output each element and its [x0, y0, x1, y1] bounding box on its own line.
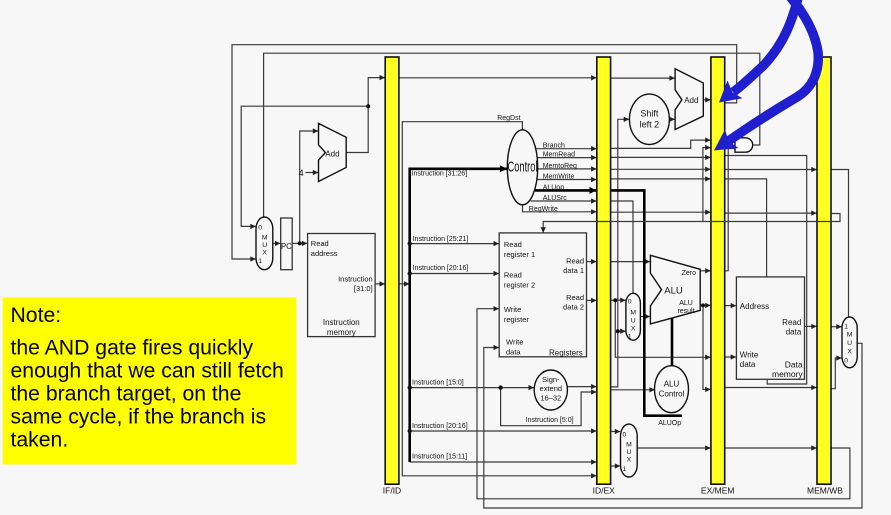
svg-text:taken.: taken.	[11, 429, 69, 452]
svg-text:M: M	[626, 442, 632, 449]
svg-text:PC: PC	[281, 242, 292, 251]
svg-text:Address: Address	[740, 302, 769, 311]
svg-text:data 1: data 1	[563, 266, 584, 275]
svg-text:ALUSrc: ALUSrc	[543, 195, 568, 202]
svg-text:MemWrite: MemWrite	[543, 173, 575, 180]
svg-text:Write: Write	[504, 305, 521, 314]
svg-text:left 2: left 2	[640, 120, 660, 130]
svg-text:Read: Read	[504, 270, 522, 279]
svg-text:MEM/WB: MEM/WB	[807, 486, 843, 496]
svg-text:ALU: ALU	[664, 379, 680, 388]
svg-text:EX/MEM: EX/MEM	[701, 486, 735, 496]
svg-text:1: 1	[628, 334, 632, 341]
svg-text:0: 0	[623, 432, 627, 439]
svg-text:Control: Control	[659, 389, 685, 398]
svg-text:Zero: Zero	[682, 270, 697, 277]
svg-text:Instruction [20:16]: Instruction [20:16]	[413, 265, 469, 272]
svg-text:U: U	[631, 318, 636, 325]
svg-text:1: 1	[623, 466, 627, 473]
svg-text:ALU: ALU	[664, 286, 683, 297]
svg-text:Read: Read	[311, 239, 329, 248]
svg-text:16–32: 16–32	[540, 393, 561, 402]
svg-text:Instruction [5:0]: Instruction [5:0]	[526, 417, 574, 424]
svg-text:Instruction [15:0]: Instruction [15:0]	[412, 379, 464, 386]
svg-text:memory: memory	[772, 369, 803, 379]
svg-text:Branch: Branch	[543, 143, 565, 150]
svg-text:Add: Add	[325, 149, 339, 158]
svg-text:memory: memory	[327, 328, 356, 337]
svg-text:ID/EX: ID/EX	[593, 486, 616, 496]
svg-text:same cycle, if the branch is: same cycle, if the branch is	[11, 406, 267, 429]
svg-text:Write: Write	[506, 338, 523, 347]
svg-text:Read: Read	[782, 318, 801, 327]
svg-text:0: 0	[258, 225, 262, 232]
svg-text:the AND gate fires quickly: the AND gate fires quickly	[11, 337, 254, 360]
svg-text:0: 0	[628, 299, 632, 306]
svg-text:Registers: Registers	[549, 348, 583, 357]
svg-text:MemRead: MemRead	[543, 152, 575, 159]
svg-text:Instruction [20:16]: Instruction [20:16]	[412, 423, 468, 430]
svg-text:enough that we can still fetch: enough that we can still fetch	[11, 360, 284, 383]
svg-text:M: M	[262, 235, 268, 242]
svg-text:register 2: register 2	[504, 280, 535, 289]
svg-text:Control: Control	[508, 159, 538, 175]
svg-text:Read: Read	[566, 293, 584, 302]
svg-text:U: U	[847, 340, 852, 347]
svg-text:0: 0	[844, 358, 848, 365]
svg-text:data: data	[786, 328, 802, 337]
svg-text:the branch target, on the: the branch target, on the	[11, 383, 242, 406]
svg-text:ALU: ALU	[679, 300, 693, 307]
svg-text:M: M	[847, 332, 853, 339]
svg-text:X: X	[847, 349, 852, 356]
svg-text:ALUOp: ALUOp	[658, 420, 681, 427]
svg-text:result: result	[677, 308, 694, 315]
svg-text:data: data	[506, 348, 521, 357]
svg-text:address: address	[311, 249, 338, 258]
svg-text:U: U	[262, 242, 267, 249]
svg-text:register 1: register 1	[504, 250, 535, 259]
svg-text:U: U	[626, 449, 631, 456]
svg-text:Add: Add	[684, 96, 698, 105]
svg-text:data: data	[740, 360, 756, 369]
svg-text:Instruction: Instruction	[338, 274, 373, 283]
svg-text:Note:: Note:	[11, 304, 62, 327]
svg-text:Instruction [15:11]: Instruction [15:11]	[412, 454, 467, 461]
svg-text:Read: Read	[566, 256, 584, 265]
svg-text:register: register	[504, 315, 530, 324]
svg-text:Shift: Shift	[640, 109, 659, 119]
svg-text:ALUop: ALUop	[543, 184, 565, 191]
svg-text:Instruction [31:26]: Instruction [31:26]	[412, 171, 468, 178]
svg-text:X: X	[631, 326, 636, 333]
svg-text:Sign-: Sign-	[542, 375, 560, 384]
svg-text:data 2: data 2	[563, 303, 584, 312]
svg-text:Instruction [25:21]: Instruction [25:21]	[413, 236, 469, 243]
svg-text:Data: Data	[785, 359, 803, 369]
svg-text:IF/ID: IF/ID	[383, 486, 401, 496]
svg-text:1: 1	[844, 324, 848, 331]
svg-text:4: 4	[299, 168, 304, 178]
svg-text:Instruction: Instruction	[323, 318, 360, 327]
svg-text:[31:0]: [31:0]	[354, 284, 373, 293]
svg-text:Write: Write	[740, 351, 759, 360]
svg-text:extend: extend	[540, 384, 563, 393]
svg-text:RegWrite: RegWrite	[529, 206, 558, 213]
svg-text:Read: Read	[504, 240, 522, 249]
svg-text:M: M	[630, 310, 636, 317]
svg-text:X: X	[262, 250, 267, 257]
svg-text:MemtoReg: MemtoReg	[543, 163, 577, 170]
svg-text:1: 1	[258, 258, 262, 265]
svg-text:RegDst: RegDst	[497, 115, 520, 122]
svg-text:X: X	[627, 457, 632, 464]
